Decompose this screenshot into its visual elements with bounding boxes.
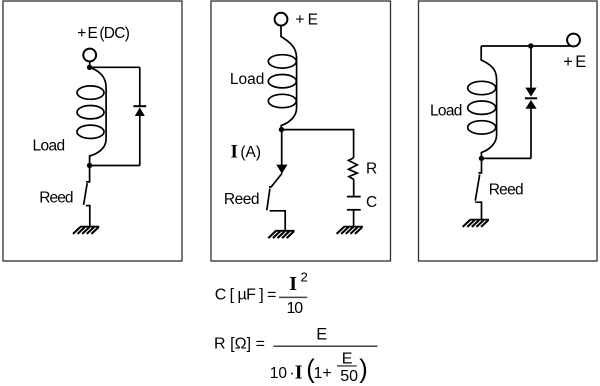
svg-text:E: E [316, 326, 327, 344]
reed switch blade panel 2 [267, 189, 270, 211]
svg-text:+: + [295, 11, 304, 28]
svg-text:Reed: Reed [39, 189, 73, 206]
svg-text:E: E [342, 350, 353, 367]
svg-text:(A): (A) [240, 144, 261, 161]
ground reed branch panel 2 [268, 231, 294, 238]
svg-text:(DC): (DC) [99, 25, 129, 42]
svg-text:C: C [366, 194, 377, 211]
panel 2 frame [211, 1, 391, 261]
svg-text:Reed: Reed [224, 191, 259, 208]
svg-text:I: I [231, 141, 238, 162]
wire terminal to node panel 1 [89, 61, 91, 65]
reed switch bottom contact panel 1 [86, 206, 90, 227]
zener diode lower triangle panel 3 [525, 100, 536, 109]
inductor coil loop 1 panel 2 [268, 55, 296, 68]
wire diode branch lower panel 1 [139, 116, 141, 166]
wire junction to RC branch panel 2 [282, 130, 354, 158]
zener diode upper triangle panel 3 [525, 88, 536, 97]
resistor R zigzag panel 2 [349, 158, 358, 180]
reed switch bottom contact panel 3 [475, 202, 481, 219]
ground panel 1 [73, 227, 99, 234]
wire resistor to capacitor panel 2 [353, 179, 355, 195]
svg-text:1+: 1+ [314, 365, 332, 382]
zener diode middle bar panel 3 [525, 97, 537, 99]
reed switch top lead panel 2 [269, 174, 282, 187]
svg-text:10: 10 [287, 300, 304, 317]
panel 3 frame [419, 1, 598, 261]
svg-text:Load: Load [230, 71, 264, 88]
svg-text:C [ µF ] =: C [ µF ] = [215, 287, 276, 304]
wire bottom horizontal panel 1 [90, 165, 140, 167]
ground panel 3 [463, 220, 489, 227]
diode D1 cathode bar [133, 105, 146, 107]
terminal circle panel 2 [275, 13, 288, 26]
inductor coil loop 3 panel 3 [468, 121, 496, 134]
reed switch blade panel 3 [475, 175, 479, 201]
terminal circle panel 1 [83, 49, 96, 62]
inductor coil loop 1 panel 3 [468, 81, 496, 94]
ground RC branch panel 2 [337, 227, 363, 234]
current arrow panel 2 [276, 165, 287, 174]
capacitor C plate 2 panel 2 [347, 209, 361, 211]
reed switch top lead panel 3 [478, 158, 481, 173]
svg-text:Reed: Reed [489, 182, 523, 199]
svg-text:I: I [289, 273, 297, 295]
node top junction dot panel 3 [528, 43, 533, 48]
node bottom junction dot panel 3 [479, 156, 484, 161]
formula 1 fraction bar [279, 296, 307, 298]
reed switch blade panel 1 [84, 183, 88, 205]
inductor coil loop 2 panel 3 [468, 101, 496, 114]
formula 2 fraction bar [273, 345, 377, 347]
wire top horizontal panel 1 [90, 66, 140, 68]
svg-text:Load: Load [430, 103, 462, 120]
reed switch bottom contact panel 2 [270, 211, 286, 231]
inductor Load coil lead panel 2 [281, 25, 297, 129]
svg-text:50: 50 [340, 368, 358, 385]
formula 2 inner fraction bar [337, 365, 357, 367]
capacitor C plate 1 panel 2 [347, 196, 361, 198]
node junction dot panel 2 [279, 127, 284, 132]
node top junction dot panel 1 [87, 65, 92, 70]
inductor Load coil lead panel 3 [481, 46, 496, 158]
wire current branch panel 2 [281, 130, 283, 166]
diode D1 triangle [135, 107, 145, 116]
wire diode branch upper panel 1 [139, 67, 141, 105]
svg-text:R: R [366, 160, 377, 177]
svg-text:·: · [289, 365, 294, 382]
terminal circle panel 3 [567, 34, 580, 47]
wire zener branch lower panel 3 [530, 109, 532, 159]
wire capacitor to ground panel 2 [353, 210, 355, 227]
svg-text:I: I [295, 361, 303, 383]
inductor Load coil lead panel 1 [90, 67, 107, 165]
svg-text:E: E [308, 11, 318, 28]
wire top horizontal panel 3 [481, 45, 570, 47]
reed switch top lead panel 1 [86, 166, 89, 182]
wire zener branch upper panel 3 [530, 46, 532, 88]
svg-text:Load: Load [33, 137, 65, 154]
wire bottom horizontal panel 3 [482, 157, 532, 159]
svg-text:E: E [88, 25, 98, 42]
inductor coil loop 2 panel 2 [268, 75, 296, 88]
svg-text:10: 10 [270, 365, 288, 382]
svg-text:): ) [359, 355, 368, 383]
svg-text:E: E [575, 53, 586, 71]
svg-text:R [Ω] =: R [Ω] = [214, 335, 265, 352]
svg-text:+: + [77, 25, 86, 42]
panel 1 frame [3, 1, 182, 261]
inductor coil loop 3 panel 2 [268, 94, 296, 107]
svg-text:2: 2 [301, 270, 308, 285]
inductor coil loop 1 panel 1 [77, 86, 104, 99]
inductor coil loop 2 panel 1 [77, 106, 104, 119]
inductor coil loop 3 panel 1 [77, 125, 104, 138]
node bottom junction dot panel 1 [87, 163, 92, 168]
svg-text:+: + [563, 53, 573, 71]
